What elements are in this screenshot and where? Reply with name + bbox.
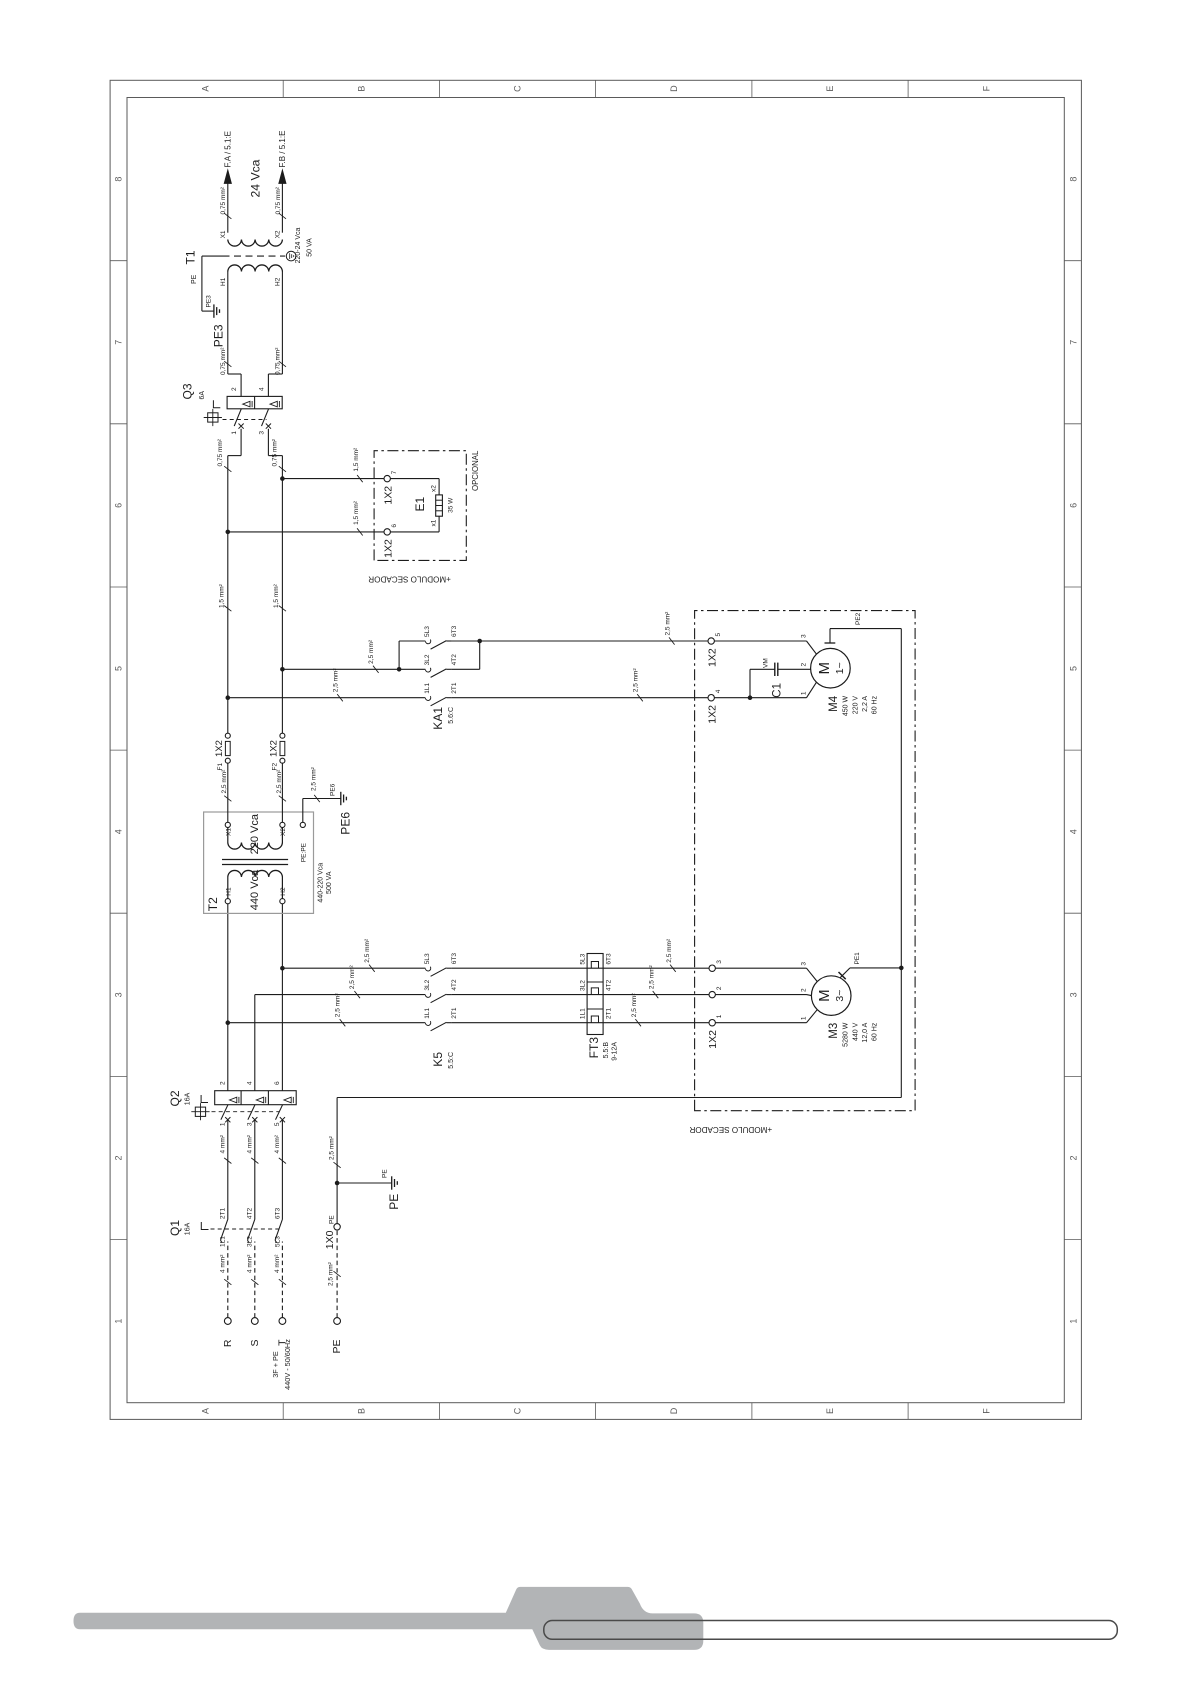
svg-text:3: 3 [801, 634, 808, 638]
svg-text:T1: T1 [184, 250, 198, 264]
svg-text:2,5 mm²: 2,5 mm² [633, 668, 640, 693]
svg-text:2,5 mm²: 2,5 mm² [631, 993, 638, 1018]
svg-text:0,75 mm²: 0,75 mm² [274, 347, 281, 375]
svg-text:2,5 mm²: 2,5 mm² [310, 766, 317, 791]
svg-text:M4: M4 [828, 695, 840, 712]
svg-text:PE: PE [387, 1194, 401, 1210]
svg-text:6T3: 6T3 [451, 625, 458, 637]
svg-text:2T1: 2T1 [606, 1008, 613, 1020]
svg-text:2T1: 2T1 [451, 1007, 458, 1019]
svg-text:60 Hz: 60 Hz [872, 1022, 879, 1041]
svg-text:C: C [513, 85, 523, 92]
svg-text:3L2: 3L2 [247, 1236, 254, 1247]
svg-text:4 mm²: 4 mm² [247, 1134, 254, 1153]
svg-text:220-24 Vca: 220-24 Vca [295, 227, 302, 263]
svg-text:2,5 mm²: 2,5 mm² [221, 769, 228, 794]
svg-text:FT3: FT3 [587, 1037, 601, 1059]
svg-text:6T3: 6T3 [451, 953, 458, 965]
svg-text:4: 4 [114, 829, 124, 834]
svg-text:PE: PE [331, 1340, 343, 1354]
svg-text:450 W: 450 W [843, 696, 850, 717]
svg-text:1L1: 1L1 [424, 1007, 431, 1018]
svg-text:F1: F1 [217, 763, 224, 771]
svg-text:5.5:B: 5.5:B [603, 1042, 610, 1059]
svg-text:X2: X2 [275, 230, 282, 238]
svg-text:A: A [200, 1408, 210, 1414]
svg-text:6T3: 6T3 [274, 1208, 281, 1220]
svg-text:4 mm²: 4 mm² [274, 1134, 281, 1153]
svg-text:D: D [669, 85, 679, 92]
svg-text:5: 5 [114, 666, 124, 671]
svg-text:1L1: 1L1 [580, 1008, 587, 1019]
svg-text:5.6:C: 5.6:C [448, 707, 455, 724]
svg-text:1: 1 [801, 1016, 808, 1020]
svg-text:1: 1 [231, 431, 238, 435]
svg-text:8: 8 [1068, 177, 1078, 182]
svg-text:+MODULO SECADOR: +MODULO SECADOR [689, 1125, 772, 1134]
svg-text:1,5 mm²: 1,5 mm² [353, 500, 360, 525]
svg-text:2,5 mm²: 2,5 mm² [328, 1261, 335, 1286]
svg-text:R: R [222, 1339, 234, 1347]
svg-text:K5: K5 [431, 1052, 445, 1067]
svg-text:440V - 50/60Hz: 440V - 50/60Hz [283, 1339, 292, 1390]
svg-text:X1: X1 [226, 828, 233, 836]
svg-text:H2: H2 [280, 887, 287, 896]
svg-text:C1: C1 [772, 683, 784, 698]
svg-text:F: F [981, 1408, 991, 1414]
svg-text:x2: x2 [431, 485, 438, 492]
svg-text:D: D [669, 1407, 679, 1414]
svg-text:1X0: 1X0 [324, 1230, 336, 1249]
svg-text:4T2: 4T2 [247, 1208, 254, 1220]
svg-text:E: E [825, 86, 835, 92]
svg-text:PE6: PE6 [329, 783, 336, 796]
svg-text:M: M [816, 662, 833, 675]
svg-text:A: A [200, 86, 210, 92]
svg-text:3: 3 [716, 960, 723, 964]
svg-text:Q3: Q3 [181, 383, 195, 399]
svg-text:1~: 1~ [834, 662, 846, 674]
svg-text:PE3: PE3 [211, 324, 225, 347]
svg-text:2: 2 [114, 1155, 124, 1160]
svg-text:0,75 mm²: 0,75 mm² [275, 186, 282, 214]
svg-text:1X2: 1X2 [269, 740, 280, 757]
svg-text:1: 1 [716, 1014, 723, 1018]
svg-text:4T2: 4T2 [451, 979, 458, 991]
svg-text:440 Vca: 440 Vca [249, 869, 261, 910]
svg-text:35 W: 35 W [448, 497, 455, 513]
svg-text:4T2: 4T2 [451, 654, 458, 666]
svg-text:PE1: PE1 [854, 952, 861, 965]
svg-text:Q2: Q2 [168, 1090, 182, 1106]
svg-text:4: 4 [246, 1081, 253, 1085]
svg-text:F2: F2 [272, 763, 279, 771]
svg-text:16A: 16A [184, 1092, 191, 1105]
svg-text:PE:PE: PE:PE [301, 842, 308, 862]
svg-text:6A: 6A [199, 391, 206, 400]
svg-text:2,5 mm²: 2,5 mm² [666, 938, 673, 963]
svg-text:1: 1 [1068, 1319, 1078, 1324]
svg-text:2T1: 2T1 [220, 1208, 227, 1220]
svg-text:5L3: 5L3 [424, 953, 431, 964]
svg-text:5.5:C: 5.5:C [448, 1052, 455, 1069]
svg-text:PE6: PE6 [339, 812, 353, 835]
svg-text:1X2: 1X2 [383, 486, 395, 505]
svg-text:6T3: 6T3 [606, 953, 613, 965]
svg-text:2: 2 [1068, 1155, 1078, 1160]
svg-text:2,5 mm²: 2,5 mm² [364, 938, 371, 963]
svg-text:24 Vca: 24 Vca [249, 159, 263, 197]
svg-text:5280 W: 5280 W [843, 1022, 850, 1047]
svg-text:3: 3 [801, 962, 808, 966]
svg-text:KA1: KA1 [431, 707, 445, 730]
svg-text:5: 5 [1068, 666, 1078, 671]
svg-text:50 VA: 50 VA [307, 238, 314, 257]
svg-text:2,5 mm²: 2,5 mm² [329, 1135, 336, 1160]
svg-text:H1: H1 [226, 887, 233, 896]
svg-text:7: 7 [1068, 340, 1078, 345]
svg-text:1: 1 [219, 1122, 226, 1126]
svg-text:1X2: 1X2 [707, 648, 719, 667]
svg-text:M: M [816, 989, 833, 1002]
svg-text:2: 2 [716, 986, 723, 990]
svg-text:2,2 A: 2,2 A [862, 696, 869, 712]
svg-text:2T1: 2T1 [451, 682, 458, 694]
svg-text:X1: X1 [220, 230, 227, 238]
svg-text:B: B [357, 1408, 367, 1414]
svg-text:1X2: 1X2 [214, 740, 225, 757]
svg-text:2: 2 [801, 988, 808, 992]
svg-text:7: 7 [391, 470, 398, 474]
svg-text:1X2: 1X2 [383, 539, 395, 558]
svg-text:5L3: 5L3 [580, 953, 587, 964]
svg-text:2,5 mm²: 2,5 mm² [335, 993, 342, 1018]
svg-text:x1: x1 [431, 519, 438, 526]
svg-text:5L3: 5L3 [274, 1236, 281, 1247]
svg-text:B: B [357, 86, 367, 92]
svg-text:F.A / 5.1:E: F.A / 5.1:E [224, 131, 233, 167]
svg-text:OPCIONAL: OPCIONAL [471, 450, 480, 491]
svg-text:2: 2 [231, 387, 238, 391]
svg-text:500 VA: 500 VA [326, 871, 333, 894]
svg-text:2,5 mm²: 2,5 mm² [665, 611, 672, 636]
svg-text:440-220 Vca: 440-220 Vca [318, 863, 325, 903]
svg-text:X2: X2 [280, 828, 287, 836]
svg-text:8: 8 [114, 177, 124, 182]
svg-text:4T2: 4T2 [606, 979, 613, 991]
svg-text:3L2: 3L2 [580, 980, 587, 991]
svg-text:3L2: 3L2 [424, 654, 431, 665]
svg-text:4 mm²: 4 mm² [247, 1254, 254, 1273]
svg-text:0,75 mm²: 0,75 mm² [220, 186, 227, 214]
svg-text:3~: 3~ [834, 990, 846, 1002]
svg-text:220 V: 220 V [852, 696, 859, 715]
svg-text:4 mm²: 4 mm² [274, 1254, 281, 1273]
svg-text:4: 4 [258, 387, 265, 391]
svg-text:4: 4 [1068, 829, 1078, 834]
svg-text:4: 4 [715, 689, 722, 693]
svg-text:F.B / 5.1:E: F.B / 5.1:E [278, 131, 287, 168]
svg-text:2,5 mm²: 2,5 mm² [276, 769, 283, 794]
svg-text:H1: H1 [220, 277, 227, 286]
svg-text:3: 3 [246, 1122, 253, 1126]
svg-text:16A: 16A [184, 1222, 191, 1235]
svg-text:E: E [825, 1408, 835, 1414]
svg-text:E1: E1 [413, 497, 427, 512]
svg-text:H2: H2 [275, 277, 282, 286]
svg-text:6: 6 [1068, 503, 1078, 508]
svg-text:3: 3 [258, 431, 265, 435]
svg-text:1,5 mm²: 1,5 mm² [353, 447, 360, 472]
svg-text:4 mm²: 4 mm² [220, 1254, 227, 1273]
svg-text:1L1: 1L1 [220, 1236, 227, 1247]
svg-text:6: 6 [274, 1081, 281, 1085]
svg-text:VM: VM [763, 658, 770, 668]
svg-text:1: 1 [114, 1319, 124, 1324]
svg-text:7: 7 [114, 340, 124, 345]
svg-text:1,5 mm²: 1,5 mm² [273, 583, 280, 608]
svg-text:3L2: 3L2 [424, 979, 431, 990]
svg-text:PE: PE [191, 274, 198, 284]
svg-text:PE2: PE2 [855, 612, 862, 625]
svg-text:PE3: PE3 [206, 295, 213, 308]
svg-text:1L1: 1L1 [424, 682, 431, 693]
svg-text:9-12A: 9-12A [612, 1042, 619, 1061]
svg-text:3: 3 [114, 992, 124, 997]
svg-text:4 mm²: 4 mm² [220, 1134, 227, 1153]
svg-text:M3: M3 [828, 1023, 840, 1039]
svg-text:3F + PE: 3F + PE [271, 1351, 280, 1378]
svg-text:2: 2 [801, 663, 808, 667]
svg-text:0,75 mm²: 0,75 mm² [220, 347, 227, 375]
svg-text:1,5 mm²: 1,5 mm² [219, 583, 226, 608]
svg-text:C: C [513, 1407, 523, 1414]
svg-text:PE: PE [382, 1169, 389, 1178]
svg-text:5: 5 [274, 1122, 281, 1126]
svg-text:3: 3 [1068, 992, 1078, 997]
svg-text:Q1: Q1 [168, 1220, 182, 1236]
svg-text:1: 1 [801, 691, 808, 695]
svg-text:T2: T2 [206, 897, 220, 911]
svg-text:1X2: 1X2 [707, 705, 719, 724]
svg-text:2,5 mm²: 2,5 mm² [368, 639, 375, 664]
svg-text:5: 5 [715, 633, 722, 637]
svg-text:2: 2 [219, 1081, 226, 1085]
svg-text:1X2: 1X2 [707, 1030, 719, 1049]
svg-text:220 Vca: 220 Vca [249, 813, 261, 854]
svg-text:6: 6 [114, 503, 124, 508]
svg-text:0,75 mm²: 0,75 mm² [217, 438, 224, 466]
svg-text:+MODULO SECADOR: +MODULO SECADOR [368, 575, 451, 584]
svg-text:12,0 A: 12,0 A [862, 1022, 869, 1042]
svg-text:2,5 mm²: 2,5 mm² [332, 668, 339, 693]
svg-text:60 Hz: 60 Hz [872, 695, 879, 714]
svg-text:PE: PE [328, 1215, 335, 1224]
svg-text:S: S [249, 1340, 261, 1347]
svg-text:F: F [981, 85, 991, 91]
svg-text:0,75 mm²: 0,75 mm² [271, 438, 278, 466]
svg-text:5L3: 5L3 [424, 626, 431, 637]
svg-text:440 V: 440 V [852, 1022, 859, 1041]
svg-text:6: 6 [391, 524, 398, 528]
